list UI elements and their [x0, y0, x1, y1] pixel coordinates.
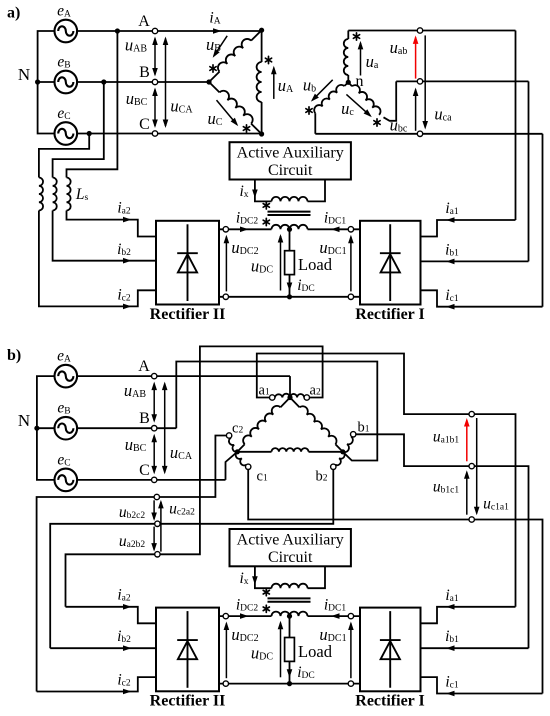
junction delta left vertex (b)	[235, 449, 240, 454]
arrowhead ic1 (a)	[446, 304, 455, 310]
svg-text:n: n	[356, 73, 364, 90]
active auxiliary circuit box (b)	[230, 529, 351, 566]
polarity star primary (a)	[263, 202, 269, 209]
wire C to Ls1 (a)	[39, 134, 89, 178]
terminal rectifier I minus (a)	[348, 294, 353, 299]
tap c2 (b)	[226, 433, 231, 438]
AC source eB (a)	[55, 71, 78, 94]
rectifier box rectifier II (b)	[156, 608, 219, 692]
wire wye n-to-uc (a)	[348, 82, 352, 86]
transformer core line lower (b)	[268, 601, 311, 603]
winding uC delta (a)	[220, 91, 253, 124]
tap winding c2 (b)	[229, 438, 237, 452]
voltage arrow uDC (b)	[278, 621, 284, 678]
diode symbol rectifier I (b)	[380, 611, 401, 688]
tap a1 (b)	[270, 395, 275, 400]
wire A to Ls3 (a)	[67, 31, 118, 178]
voltage arrow uc (a)	[346, 94, 371, 117]
svg-text:Rectifier I: Rectifier I	[355, 693, 424, 710]
voltage arrow uAB (a)	[152, 37, 158, 77]
svg-text:B: B	[139, 64, 150, 81]
wire ia1 feed (b)	[421, 607, 516, 624]
arrowhead ia1 (b)	[446, 604, 455, 610]
arrowhead ix (b)	[252, 576, 258, 585]
polarity star uA (a)	[265, 56, 271, 63]
wire dc top rail left (a)	[219, 228, 272, 230]
wire B to vertex b (b)	[176, 362, 377, 461]
svg-text:A: A	[138, 13, 150, 30]
voltage arrow uDC1 (a)	[348, 235, 354, 292]
wire phase B line (a)	[77, 81, 209, 83]
wire ia2 feed (b)	[66, 607, 157, 624]
wire load top (b)	[289, 616, 291, 637]
arrowhead ix (a)	[252, 190, 258, 199]
tap c1 (b)	[246, 464, 251, 469]
arrowhead ic1 (b)	[446, 691, 455, 697]
voltage arrow uCA (b)	[162, 382, 168, 475]
wire ia2 feed (a)	[67, 211, 157, 237]
terminal a1 measure (b)	[469, 411, 474, 416]
wire wye a-to-n (a)	[347, 75, 349, 82]
winding uc wye (a)	[352, 85, 381, 115]
auxiliary transformer primary winding (b)	[272, 584, 308, 588]
wire net b to right (a)	[396, 80, 528, 82]
node net b (a)	[417, 79, 422, 84]
wire delta bottom edge right (b)	[309, 451, 343, 453]
wire neutral bus (a)	[38, 31, 55, 134]
wire delta right edge upper (b)	[290, 398, 300, 408]
voltage arrow uAB (b)	[151, 382, 157, 423]
node B (a)	[152, 79, 157, 84]
terminal rectifier II minus (b)	[223, 681, 228, 686]
wire primary right lead (b)	[308, 566, 326, 588]
AC source eA (a)	[55, 20, 78, 43]
rectifier box rectifier I (a)	[360, 221, 421, 305]
wire net c down (a)	[542, 134, 544, 307]
transformer core line upper (b)	[268, 597, 311, 599]
winding ub wye (a)	[314, 85, 344, 113]
voltage arrow ua2b2 (b)	[151, 527, 157, 552]
junction A-Ls tap (a)	[115, 28, 120, 33]
polarity star secondary (a)	[263, 218, 269, 225]
AC source eB (b)	[55, 417, 78, 440]
inductor Ls phase B (a)	[53, 178, 57, 211]
arrowhead iDC2 (b)	[240, 613, 249, 619]
junction load bottom (b)	[287, 681, 292, 686]
svg-text:b): b)	[7, 347, 21, 364]
voltage arrow uc2a2 (b)	[158, 500, 164, 552]
wire ia1 feed (a)	[421, 220, 516, 237]
voltage arrow ub (a)	[311, 80, 333, 102]
rectifier box rectifier II (a)	[156, 221, 219, 305]
wire net b up-right (a)	[384, 81, 397, 120]
terminal rectifier II minus (a)	[223, 294, 228, 299]
wire net a down (a)	[515, 31, 517, 221]
inductor Ls phase A (a)	[67, 178, 71, 211]
junction N (b)	[34, 426, 39, 431]
arrowhead current iA (a)	[213, 28, 222, 34]
wire neutral to eB (a)	[38, 81, 55, 83]
node net c (a)	[417, 131, 422, 136]
wire ib1 feed (a)	[421, 260, 529, 262]
junction delta apex (b)	[287, 395, 292, 400]
junction delta top vertex (a)	[259, 28, 264, 33]
svg-text:N: N	[18, 411, 30, 430]
svg-text:A: A	[138, 358, 150, 375]
wire phase C line (a)	[77, 133, 262, 135]
inductor Ls phase C (a)	[39, 178, 43, 211]
arrowhead ib1 (a)	[446, 259, 455, 265]
arrowhead iDC1 (b)	[331, 613, 340, 619]
wire c1 down right (b)	[248, 469, 542, 693]
polarity star uB (a)	[210, 65, 216, 72]
winding bottom edge (b)	[272, 448, 309, 452]
wire ix left lead (b)	[255, 566, 272, 588]
wire delta edge right-top (a)	[261, 30, 263, 62]
tap winding a2 (b)	[290, 394, 304, 398]
polarity star secondary (b)	[263, 605, 269, 612]
arrowhead ia2 (a)	[123, 217, 132, 223]
wire C to vertex c (b)	[226, 452, 238, 480]
junction wye neutral n (a)	[346, 80, 351, 85]
wire dc top rail right (a)	[308, 228, 361, 230]
wire delta edge LB-start (a)	[209, 82, 220, 92]
arrowhead iDC2 (a)	[240, 227, 249, 233]
terminal rectifier II plus (a)	[223, 227, 228, 232]
svg-text:Active Auxiliary: Active Auxiliary	[237, 145, 344, 162]
junction N (a)	[35, 79, 40, 84]
svg-text:Load: Load	[298, 255, 333, 274]
polarity star ua (a)	[353, 33, 359, 40]
tap b2 (b)	[331, 464, 336, 469]
node C (a)	[152, 131, 157, 136]
terminal b2 measure (b)	[155, 521, 160, 526]
terminal a2 measure (b)	[155, 552, 160, 557]
wire net c to right (a)	[315, 133, 542, 135]
node A (a)	[152, 28, 157, 33]
voltage arrow uc1a1 (b)	[474, 418, 480, 515]
arrowhead iDC (b)	[287, 669, 293, 678]
junction C-Ls tap (a)	[87, 131, 92, 136]
terminal rectifier I minus (b)	[348, 681, 353, 686]
wire delta edge TA-start (a)	[251, 30, 262, 40]
wire delta edge right-bottom (a)	[261, 102, 263, 134]
wire delta left edge lower (b)	[237, 444, 244, 452]
interphase winding on dc rail (b)	[272, 612, 308, 617]
wire ic2 feed (a)	[39, 211, 156, 307]
winding uA delta (a)	[257, 62, 262, 102]
wire A to apex (b)	[289, 376, 291, 397]
voltage arrow uDC1 (b)	[348, 622, 354, 679]
arrowhead ia1 (a)	[446, 217, 455, 223]
junction B-Ls tap (a)	[101, 79, 106, 84]
node B (b)	[152, 426, 157, 431]
svg-text:C: C	[139, 462, 150, 479]
junction load bottom (a)	[287, 294, 292, 299]
voltage arrow uDC2 (b)	[224, 622, 230, 679]
wire ic1 feed (b)	[421, 677, 543, 693]
wire load bottom (a)	[289, 275, 291, 297]
junction load tap (a)	[287, 227, 292, 232]
wire load bottom (b)	[289, 661, 291, 683]
rectifier box rectifier I (b)	[360, 608, 421, 692]
wire b2 to left (b)	[50, 469, 333, 648]
wire wye n-to-ub (a)	[344, 82, 348, 86]
junction delta bottom vertex (a)	[259, 131, 264, 136]
wire a1 to line2 (b)	[257, 354, 516, 607]
tap winding c1 (b)	[236, 452, 247, 466]
wire delta left edge upper (b)	[281, 398, 291, 408]
terminal c2 measure (b)	[154, 494, 159, 499]
wire ix left lead (a)	[255, 180, 272, 202]
arrowhead ib2 (a)	[123, 258, 132, 264]
voltage arrow ub2c2 (b)	[151, 500, 157, 521]
winding uB delta (a)	[218, 39, 251, 72]
tap winding b2 (b)	[335, 452, 344, 465]
winding left edge (b)	[243, 406, 280, 444]
wire phase C line (b)	[77, 479, 225, 481]
polarity star uc (a)	[374, 119, 380, 126]
voltage arrow uBC (a)	[152, 88, 158, 129]
load resistor (a)	[285, 251, 295, 275]
node net a (a)	[417, 28, 422, 33]
voltage arrow ub1c1 (b)	[464, 470, 470, 514]
arrowhead iDC (a)	[287, 283, 293, 292]
wire a2 to line1 (b)	[66, 346, 323, 606]
wire dc bottom rail (b)	[219, 683, 360, 685]
diode symbol rectifier II (a)	[177, 224, 198, 301]
interphase winding on dc rail (a)	[272, 225, 308, 230]
wire ic1 feed (a)	[421, 290, 543, 306]
tap winding b1 (b)	[343, 437, 353, 453]
node A (b)	[152, 373, 157, 378]
voltage arrow uA (a)	[271, 66, 277, 99]
voltage arrow ua (a)	[358, 41, 364, 76]
wire neutral to eB (b)	[37, 427, 55, 429]
svg-text:Rectifier I: Rectifier I	[355, 306, 424, 323]
svg-text:Circuit: Circuit	[268, 549, 313, 566]
arrowhead iDC1 (a)	[331, 227, 340, 233]
terminal c1 measure (b)	[469, 517, 474, 522]
AC source eC (a)	[55, 122, 78, 145]
arrowhead ic2 (b)	[123, 689, 132, 695]
wire ic2 feed (b)	[37, 677, 156, 691]
auxiliary transformer primary winding (a)	[272, 197, 308, 202]
svg-text:Active Auxiliary: Active Auxiliary	[237, 531, 344, 548]
wire ib2 feed (b)	[50, 647, 156, 649]
voltage arrow uDC2 (a)	[224, 235, 230, 292]
svg-text:Rectifier II: Rectifier II	[150, 306, 226, 323]
voltage arrow uB (a)	[213, 36, 228, 58]
voltage arrow uBC (b)	[151, 434, 157, 475]
tap a2 (b)	[304, 395, 309, 400]
svg-text:Circuit: Circuit	[268, 162, 313, 179]
wire delta bottom edge left (b)	[237, 451, 271, 453]
voltage arrow uab red (a)	[413, 35, 419, 78]
voltage arrow uca (a)	[422, 35, 428, 129]
arrowhead ia2 (b)	[123, 604, 132, 610]
wire primary right lead (a)	[308, 180, 326, 202]
wire net a to right (a)	[348, 30, 515, 32]
wire dc top rail right (b)	[308, 615, 361, 617]
wire dc bottom rail (a)	[219, 296, 360, 298]
wire delta edge TA-end (a)	[209, 72, 220, 82]
wire neutral bus (b)	[37, 376, 55, 480]
terminal rectifier I plus (a)	[348, 227, 353, 232]
svg-text:Rectifier II: Rectifier II	[150, 693, 226, 710]
wire phase A line (a)	[77, 30, 262, 32]
wire phase B line (b)	[77, 427, 176, 429]
wire load top (a)	[289, 229, 291, 250]
AC source eA (b)	[55, 365, 78, 388]
terminal rectifier I plus (b)	[348, 613, 353, 618]
wire B to Ls2 (a)	[53, 82, 104, 178]
node C (b)	[152, 477, 157, 482]
AC source eC (b)	[55, 469, 78, 492]
polarity star ub (a)	[306, 107, 312, 114]
terminal b1 measure (b)	[469, 463, 474, 468]
polarity star uC (a)	[243, 125, 249, 132]
diode symbol rectifier I (a)	[380, 224, 401, 301]
junction delta right vertex (b)	[340, 449, 345, 454]
wire dc top rail left (b)	[219, 615, 272, 617]
junction delta left vertex (a)	[206, 79, 211, 84]
diode symbol rectifier II (b)	[177, 611, 198, 688]
wire ib1 feed (b)	[421, 647, 529, 649]
wire delta right edge lower (b)	[335, 444, 342, 452]
transformer core line lower (a)	[268, 214, 311, 216]
svg-text:B: B	[139, 410, 150, 427]
wire phase A line (b)	[77, 375, 290, 377]
voltage arrow uC (a)	[217, 100, 239, 126]
transformer core line upper (a)	[268, 211, 311, 213]
terminal rectifier II plus (b)	[223, 613, 228, 618]
load resistor (b)	[285, 638, 295, 662]
tap b1 (b)	[351, 432, 356, 437]
winding right edge (b)	[300, 406, 337, 444]
polarity star primary (b)	[263, 589, 269, 596]
junction load tap (b)	[287, 614, 292, 619]
wire delta edge LB-end (a)	[251, 124, 262, 134]
voltage arrow uCA (a)	[163, 37, 169, 129]
voltage arrow ubc (a)	[413, 88, 419, 131]
wire wye a-top corner (a)	[347, 31, 349, 40]
active auxiliary circuit box (a)	[230, 142, 351, 179]
arrowhead ic2 (a)	[123, 304, 132, 310]
wire ib2 feed (a)	[53, 211, 156, 261]
winding ua wye (a)	[344, 39, 348, 75]
svg-text:Load: Load	[298, 642, 333, 661]
svg-text:a): a)	[7, 5, 20, 22]
tap winding a1 (b)	[275, 394, 290, 398]
svg-text:C: C	[139, 116, 150, 133]
wire net c drop (a)	[314, 113, 316, 134]
voltage arrow ua1b1 red (b)	[464, 418, 470, 461]
arrowhead ib2 (b)	[123, 645, 132, 651]
wire net b down (a)	[528, 81, 530, 261]
voltage arrow uDC (a)	[278, 234, 284, 291]
wire c2 to left (b)	[37, 436, 227, 692]
arrowhead ib1 (b)	[446, 645, 455, 651]
wire b1 down right (b)	[356, 434, 529, 648]
svg-text:N: N	[18, 65, 30, 84]
